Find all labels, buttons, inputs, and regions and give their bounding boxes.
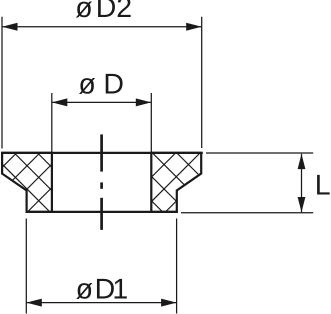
svg-text:øD2: øD2 — [75, 0, 132, 24]
dimension D1 arrow left — [26, 299, 41, 307]
washer right half outline — [151, 153, 201, 212]
dimension L arrow up — [298, 154, 306, 169]
hatching left block — [0, 150, 113, 215]
dimension D1 line — [26, 302, 176, 304]
dimension D2 arrow right — [186, 23, 201, 31]
dimension L extension line bottom — [181, 212, 313, 214]
dimension D arrow left — [52, 98, 67, 106]
hatching right block — [101, 150, 239, 215]
washer cross-section top edge — [1, 152, 203, 154]
dimension D line — [52, 101, 152, 103]
dimension D2 extension line left — [1, 17, 3, 149]
dimension D extension line right — [150, 93, 152, 152]
dimension L line — [301, 154, 303, 213]
dimension D2 arrow left — [2, 23, 17, 31]
centerline — [100, 134, 103, 230]
svg-text:øD1: øD1 — [76, 273, 129, 305]
dimension D2 extension line right — [201, 17, 203, 148]
dimension D extension line left — [51, 93, 53, 152]
dimension D1 extension line right — [176, 219, 178, 314]
dimension D2 line — [2, 26, 202, 28]
washer cross-section bottom edge — [26, 211, 178, 213]
svg-text:L: L — [315, 170, 331, 202]
dimension D arrow right — [136, 98, 151, 106]
washer left half outline — [2, 153, 52, 212]
dimension D1 extension line left — [25, 219, 27, 314]
dimension D1 arrow right — [161, 299, 176, 307]
dimension L arrow down — [298, 197, 306, 212]
dimension L extension line top — [206, 152, 313, 154]
